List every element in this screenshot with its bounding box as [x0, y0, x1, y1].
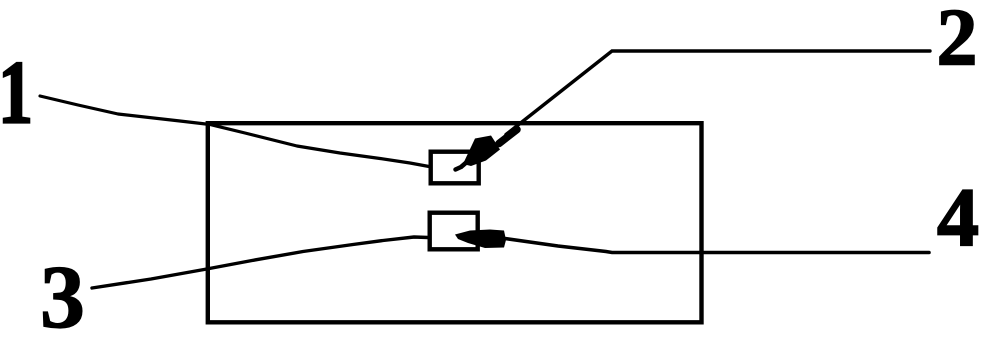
svg-text:3: 3 [40, 248, 85, 340]
svg-text:2: 2 [937, 0, 978, 83]
svg-text:4: 4 [937, 172, 979, 265]
svg-text:1: 1 [0, 43, 33, 142]
